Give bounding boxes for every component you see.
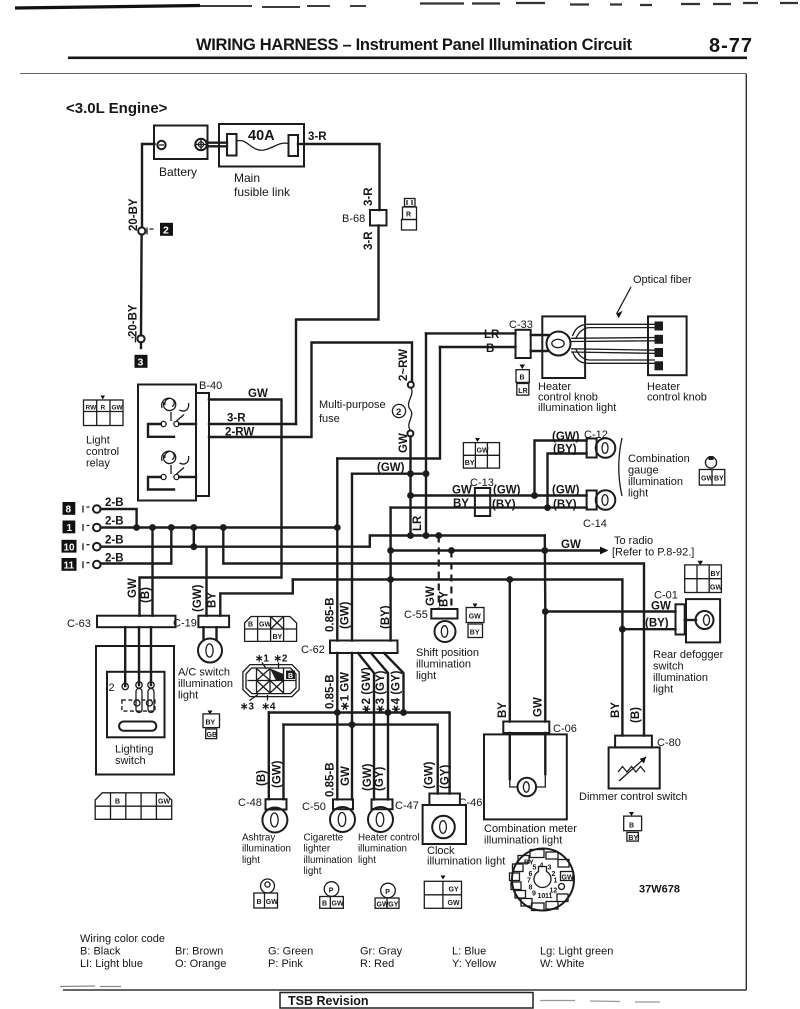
svg-text:(GW): (GW) — [340, 601, 352, 629]
page header title — [196, 35, 752, 57]
inline connector 3 — [132, 335, 148, 368]
icon clock — [424, 876, 461, 909]
label heater control illumination light — [358, 833, 420, 866]
label combination meter illumination light — [484, 823, 577, 847]
bracket — [619, 438, 622, 496]
wire BY bus line D — [293, 580, 623, 736]
svg-text:switch: switch — [115, 755, 146, 767]
inline connector 2 — [138, 223, 173, 237]
svg-text:relay: relay — [86, 458, 110, 470]
svg-text:Y: Yellow: Y: Yellow — [452, 958, 496, 970]
svg-text:BY: BY — [711, 571, 721, 578]
svg-text:7: 7 — [527, 878, 531, 885]
svg-text:GW: GW — [452, 485, 472, 497]
svg-text:L: Blue: L: Blue — [452, 946, 486, 958]
svg-text:C-06: C-06 — [553, 723, 577, 735]
svg-text:∗3 (GY): ∗3 (GY) — [375, 670, 387, 714]
bulb C-14 — [587, 490, 616, 510]
svg-text:BY: BY — [610, 702, 622, 718]
svg-text:(GW): (GW) — [362, 763, 374, 791]
svg-text:2-B: 2-B — [105, 535, 124, 547]
connector row 11 — [62, 553, 124, 572]
relay coil 2 — [148, 451, 196, 489]
svg-text:(BY): (BY) — [492, 499, 516, 511]
icon heater control — [375, 883, 399, 908]
svg-text:B: B — [520, 375, 525, 382]
icon below dimmer — [624, 812, 642, 842]
svg-text:gauge: gauge — [628, 465, 659, 477]
C-19 pin table — [245, 617, 297, 642]
connector C-47 with bulb — [368, 799, 419, 832]
connector C-50 with bulb — [302, 799, 355, 832]
wire horizontal y724.6 — [284, 725, 438, 794]
svg-text:Lighting: Lighting — [115, 744, 154, 756]
svg-text:2~RW: 2~RW — [398, 349, 410, 381]
wire B to C-33 — [440, 346, 516, 348]
svg-text:P: Pink: P: Pink — [268, 958, 303, 970]
svg-text:20-BY: 20-BY — [128, 198, 140, 231]
svg-text:<3.0L Engine>: <3.0L Engine> — [66, 100, 168, 117]
heater control knob illumination box — [542, 316, 585, 378]
svg-text:0.85-B: 0.85-B — [325, 762, 337, 797]
svg-text:Br: Brown: Br: Brown — [175, 946, 223, 958]
wire B drop to C-63 — [151, 528, 153, 616]
svg-text:control: control — [86, 446, 119, 458]
svg-text:(BY): (BY) — [645, 618, 669, 630]
label to radio — [612, 535, 694, 559]
svg-text:4: 4 — [540, 863, 544, 870]
svg-text:5: 5 — [533, 865, 537, 872]
svg-text:Combination meter: Combination meter — [484, 823, 577, 835]
svg-text:2: 2 — [163, 224, 169, 236]
svg-text:B: B — [322, 901, 327, 908]
svg-text:B: B — [248, 622, 253, 629]
svg-text:TSB Revision: TSB Revision — [288, 994, 369, 1008]
svg-text:(B): (B) — [630, 707, 642, 723]
wire LR to C-33 — [426, 332, 516, 334]
battery — [154, 126, 208, 180]
svg-text:Multi-purpose: Multi-purpose — [319, 399, 386, 411]
connector C-13 — [470, 477, 494, 516]
svg-text:∗2 (GW): ∗2 (GW) — [361, 667, 373, 714]
svg-text:C-63: C-63 — [67, 618, 91, 630]
wire B bus to C-80 — [223, 528, 644, 736]
svg-text:Gr: Gray: Gr: Gray — [360, 946, 403, 958]
svg-text:0.85-B: 0.85-B — [325, 597, 337, 632]
svg-text:P: P — [329, 888, 334, 895]
wire GW branch row10 to C-19 — [205, 547, 207, 616]
svg-text:GW: GW — [259, 622, 271, 629]
wiring color code legend — [80, 933, 613, 970]
wire 3-R relay — [209, 423, 296, 425]
svg-text:GW: GW — [127, 578, 139, 598]
svg-text:Shift position: Shift position — [416, 647, 479, 659]
wire GW line to C-13/C-14 — [411, 494, 587, 496]
svg-text:BY: BY — [497, 702, 509, 718]
wire BY drop to C-06 — [509, 580, 511, 722]
svg-text:3-R: 3-R — [308, 131, 327, 143]
multi-purpose fuse symbol — [392, 382, 413, 437]
svg-text:(GW): (GW) — [377, 462, 405, 474]
svg-text:illumination: illumination — [304, 855, 353, 866]
svg-text:P: P — [385, 889, 390, 896]
icon below C-33 — [516, 365, 529, 396]
wire BY branch to C-12 — [548, 454, 587, 508]
svg-text:C-47: C-47 — [395, 800, 419, 812]
svg-text:light: light — [653, 684, 673, 696]
bulb A/C switch — [198, 639, 222, 663]
wire GW branch to C-12 — [535, 441, 587, 496]
svg-text:C-55: C-55 — [404, 609, 428, 621]
svg-text:B: B — [486, 343, 494, 355]
label light control relay — [86, 435, 119, 470]
wire LR riser — [425, 333, 427, 535]
svg-text:O: Orange: O: Orange — [175, 958, 226, 970]
svg-text:GW: GW — [448, 900, 460, 907]
wire horizontal y712 — [269, 713, 450, 794]
svg-text:(GW): (GW) — [552, 431, 580, 443]
svg-text:GB: GB — [207, 732, 218, 739]
label optical fiber with arrow — [617, 274, 693, 318]
svg-text:C-19: C-19 — [173, 618, 197, 630]
svg-text:(BY): (BY) — [553, 499, 577, 511]
dimmer control switch box — [609, 747, 660, 788]
wire 2-RW relay to fuse — [209, 343, 412, 438]
svg-text:Light: Light — [86, 435, 110, 447]
scan artifact top streaks — [15, 3, 798, 8]
svg-text:GW: GW — [701, 476, 713, 483]
svg-text:GW: GW — [340, 766, 352, 786]
svg-text:G: Green: G: Green — [268, 946, 313, 958]
svg-text:light: light — [304, 866, 322, 877]
connector table near gauge wires — [463, 438, 499, 468]
relay icon beside B-68 — [402, 199, 417, 231]
lighting switch box — [96, 646, 174, 775]
svg-text:Combination: Combination — [628, 453, 690, 465]
wire GW drop from jog line to C-01/C-06 — [544, 536, 547, 722]
wire battery minus with 20-BY — [142, 144, 155, 227]
switch contacts — [109, 682, 157, 731]
wire 0.85-B riser upper — [336, 459, 338, 641]
svg-text:B: Black: B: Black — [80, 946, 121, 958]
svg-text:BY: BY — [470, 630, 480, 637]
connector C-48 with bulb — [238, 797, 287, 833]
svg-text:11: 11 — [545, 893, 553, 900]
wires below C-62 — [336, 653, 338, 799]
svg-text:light: light — [628, 488, 648, 500]
label heater control knob — [647, 381, 707, 404]
svg-text:BY: BY — [439, 591, 451, 607]
svg-text:illumination: illumination — [628, 476, 683, 488]
svg-text:(B): (B) — [140, 587, 152, 603]
svg-text:2-B: 2-B — [105, 497, 124, 509]
svg-text:lighter: lighter — [304, 844, 331, 855]
wire *1GW riser upper — [351, 474, 353, 641]
label clock illumination light — [427, 845, 505, 868]
svg-text:C-46: C-46 — [459, 797, 483, 809]
svg-text:RW: RW — [86, 405, 98, 412]
svg-text:(GW): (GW) — [552, 485, 580, 497]
dashed BY to C-55 — [450, 551, 452, 610]
svg-text:Wiring color code: Wiring color code — [80, 933, 165, 945]
svg-text:illumination: illumination — [358, 844, 407, 855]
circular connector — [510, 849, 575, 911]
svg-text:37W678: 37W678 — [639, 884, 680, 896]
wire link row1 to row10 — [193, 528, 195, 547]
svg-text:GY: GY — [449, 887, 459, 894]
optical fibers — [571, 324, 655, 363]
svg-text:C-48: C-48 — [238, 797, 262, 809]
svg-text:GW: GW — [377, 901, 389, 908]
wire BY step to C-19 — [220, 580, 292, 616]
svg-text:light: light — [416, 670, 436, 682]
svg-text:GW: GW — [158, 799, 170, 806]
svg-text:Lg: Light green: Lg: Light green — [540, 946, 613, 958]
svg-text:Battery: Battery — [159, 165, 197, 179]
svg-text:C-50: C-50 — [302, 801, 326, 813]
svg-text:GY: GY — [388, 901, 398, 908]
svg-text:GW: GW — [332, 901, 344, 908]
svg-text:R: R — [406, 212, 411, 219]
svg-text:B-40: B-40 — [199, 380, 222, 392]
connector C-62 — [330, 641, 398, 654]
fiber terminal squares — [655, 322, 664, 371]
svg-text:3-R: 3-R — [363, 187, 375, 206]
svg-text:2: 2 — [396, 407, 401, 418]
svg-text:BY: BY — [453, 498, 469, 510]
svg-text:illumination light: illumination light — [538, 402, 616, 414]
connector B-68 — [342, 210, 387, 226]
connector C-80 — [615, 736, 681, 749]
wires C-33 to bulb — [531, 335, 548, 351]
connector C-63 — [67, 616, 176, 630]
svg-text:Ashtray: Ashtray — [242, 833, 275, 844]
connector C-55 — [404, 609, 458, 621]
wire battery plus to fusible link (double) — [207, 143, 227, 147]
svg-text:GW: GW — [398, 433, 410, 453]
wire row 1 bus — [101, 526, 338, 528]
wire fuse to B-68 — [298, 144, 380, 210]
svg-text:B: B — [115, 799, 120, 806]
dashed GW to C-55 — [438, 536, 440, 610]
rear defogger switch box with bulb — [685, 599, 720, 642]
lighting switch inner box — [107, 672, 165, 738]
svg-text:LR: LR — [518, 388, 527, 395]
svg-text:Optical fiber: Optical fiber — [633, 274, 692, 286]
wire link row11 to row1 — [170, 528, 172, 564]
svg-text:8: 8 — [66, 505, 72, 516]
bulb heater control knob illumination — [547, 332, 571, 356]
svg-text:illumination: illumination — [242, 844, 291, 855]
svg-text:BY: BY — [714, 476, 724, 483]
svg-text:(GY): (GY) — [440, 765, 452, 789]
svg-text:switch: switch — [653, 661, 684, 673]
svg-text:GW: GW — [561, 539, 581, 551]
svg-text:GW: GW — [266, 899, 278, 906]
svg-text:light: light — [178, 690, 198, 702]
svg-text:B-68: B-68 — [342, 213, 365, 225]
svg-text:GW: GW — [469, 614, 481, 621]
svg-text:(B): (B) — [256, 770, 268, 786]
wire B-68 down to 3-R jog — [296, 226, 379, 425]
wire GW from fuse down — [409, 437, 411, 536]
svg-text:C-62: C-62 — [301, 644, 325, 656]
svg-text:(GW): (GW) — [493, 485, 521, 497]
svg-text:GW: GW — [533, 697, 545, 717]
svg-text:(GW): (GW) — [272, 760, 284, 788]
wire 20-BY lower — [140, 235, 143, 336]
connector C-01 — [676, 604, 685, 634]
svg-text:2: 2 — [109, 682, 115, 694]
svg-text:GW: GW — [477, 448, 489, 455]
A/C switch pin diagram — [240, 654, 299, 713]
header rule — [68, 57, 747, 60]
relay coil 1 — [148, 398, 196, 437]
connector C-33 — [516, 330, 531, 358]
rear defogger pin table — [685, 561, 723, 593]
svg-text:control knob: control knob — [647, 392, 707, 404]
svg-text:R: R — [101, 405, 106, 412]
connector C-46 with clock box — [423, 794, 483, 845]
svg-text:8-77: 8-77 — [709, 35, 752, 57]
svg-text:[Refer to P.8-92.]: [Refer to P.8-92.] — [612, 547, 694, 559]
wire branch y474 — [352, 473, 426, 475]
svg-text:∗4 (GY): ∗4 (GY) — [391, 670, 403, 714]
svg-text:LR: LR — [484, 329, 500, 341]
svg-text:A/C switch: A/C switch — [178, 667, 230, 679]
connector row 8 — [63, 497, 124, 516]
svg-text:3-R: 3-R — [227, 413, 246, 425]
icon ashtray — [254, 879, 278, 908]
svg-text:LI: Light blue: LI: Light blue — [80, 958, 143, 970]
svg-text:light: light — [242, 855, 260, 866]
svg-text:illumination: illumination — [653, 672, 708, 684]
svg-text:(GW): (GW) — [424, 761, 436, 789]
svg-text:40A: 40A — [248, 128, 275, 144]
light control relay pin table — [84, 396, 124, 426]
label A/C switch illumination light — [178, 667, 233, 702]
svg-text:B: B — [257, 899, 262, 906]
svg-text:C-14: C-14 — [583, 518, 607, 530]
svg-text:0.85-B: 0.85-B — [325, 674, 337, 709]
svg-text:(GW): (GW) — [192, 584, 204, 612]
label lighting switch — [115, 744, 154, 768]
svg-text:R: Red: R: Red — [360, 958, 394, 970]
wire BY to C-01 — [622, 628, 675, 630]
relay B-40 box — [138, 380, 222, 501]
connector C-06 — [503, 722, 577, 736]
icon below A/C — [203, 711, 220, 740]
svg-text:(GY): (GY) — [374, 767, 386, 791]
svg-text:BY: BY — [207, 592, 219, 608]
svg-text:9: 9 — [532, 891, 536, 898]
svg-text:∗4: ∗4 — [262, 702, 276, 713]
TSB revision box — [280, 993, 533, 1009]
svg-text:BY: BY — [206, 720, 216, 727]
svg-text:GW: GW — [112, 405, 124, 412]
wire row 11 — [101, 562, 172, 564]
label ashtray illumination light — [242, 833, 291, 866]
svg-text:(BY): (BY) — [380, 605, 392, 629]
wire GW to C-01 — [545, 610, 675, 612]
label rear defogger switch illumination light — [653, 649, 724, 696]
svg-text:LR: LR — [412, 515, 424, 531]
svg-text:Cigarette: Cigarette — [304, 833, 344, 844]
svg-text:3: 3 — [138, 356, 144, 368]
svg-text:illumination light: illumination light — [484, 835, 562, 847]
svg-text:C-13: C-13 — [470, 477, 494, 489]
svg-text:B: B — [288, 673, 293, 680]
svg-text:2-B: 2-B — [105, 516, 124, 528]
svg-text:BY: BY — [273, 634, 283, 641]
label combination gauge illumination light — [628, 453, 690, 500]
svg-text:11: 11 — [64, 561, 75, 572]
svg-text:GW: GW — [710, 585, 722, 592]
svg-text:Main: Main — [234, 171, 260, 185]
connector row 1 — [63, 516, 124, 535]
svg-text:BY: BY — [628, 835, 638, 842]
wire to-radio line — [391, 549, 601, 551]
heater control knob box — [648, 316, 687, 375]
svg-text:Dimmer control switch: Dimmer control switch — [579, 791, 687, 803]
wire row 8 — [101, 509, 137, 528]
wires C-63 to lighting switch — [125, 627, 151, 686]
label heater control knob illumination light — [538, 381, 616, 414]
lighting switch pin table — [95, 793, 172, 820]
main fusible link — [219, 124, 304, 199]
wire BY riser C-13 — [389, 508, 391, 641]
svg-text:∗3: ∗3 — [240, 702, 254, 713]
svg-text:Heater control: Heater control — [358, 833, 420, 844]
label shift position illumination light — [416, 647, 479, 682]
label cigarette lighter illumination light — [304, 833, 353, 878]
svg-text:3-R: 3-R — [363, 231, 375, 250]
svg-text:fuse: fuse — [319, 413, 340, 425]
svg-text:W: White: W: White — [540, 958, 584, 970]
icon C-55 — [466, 604, 484, 638]
icon cigarette lighter — [320, 882, 344, 909]
svg-text:GW: GW — [562, 875, 574, 882]
svg-text:Rear defogger: Rear defogger — [653, 649, 724, 661]
svg-text:light: light — [358, 855, 376, 866]
wire GW relay to C-63 — [140, 400, 282, 616]
svg-text:illumination light: illumination light — [427, 856, 505, 868]
combination meter box — [484, 733, 567, 819]
svg-text:1: 1 — [554, 878, 558, 885]
svg-text:20-BY: 20-BY — [128, 304, 140, 337]
svg-text:1: 1 — [67, 523, 73, 534]
bulb C-55 — [435, 621, 456, 642]
svg-text:GW: GW — [248, 388, 268, 400]
wire BY line to C-13/C-14 — [391, 506, 587, 508]
svg-text:10: 10 — [64, 542, 76, 553]
wire C-48 drops — [269, 713, 284, 800]
wire B riser to GW branch — [337, 347, 440, 459]
svg-text:WIRING HARNESS – Instrument Pa: WIRING HARNESS – Instrument Panel Illumi… — [196, 36, 633, 54]
svg-text:(BY): (BY) — [553, 444, 577, 456]
svg-text:GW: GW — [425, 586, 437, 606]
wire row 10 to jog — [101, 536, 545, 547]
svg-text:∗2: ∗2 — [274, 654, 288, 665]
svg-text:illumination: illumination — [416, 659, 471, 671]
svg-text:fusible link: fusible link — [234, 185, 291, 199]
wires C-19 to bulb — [204, 627, 217, 640]
combination gauge icon — [699, 456, 725, 485]
svg-text:BY: BY — [465, 460, 475, 467]
connector C-19 — [173, 616, 229, 630]
svg-text:illumination: illumination — [178, 678, 233, 690]
svg-text:To radio: To radio — [614, 535, 653, 547]
